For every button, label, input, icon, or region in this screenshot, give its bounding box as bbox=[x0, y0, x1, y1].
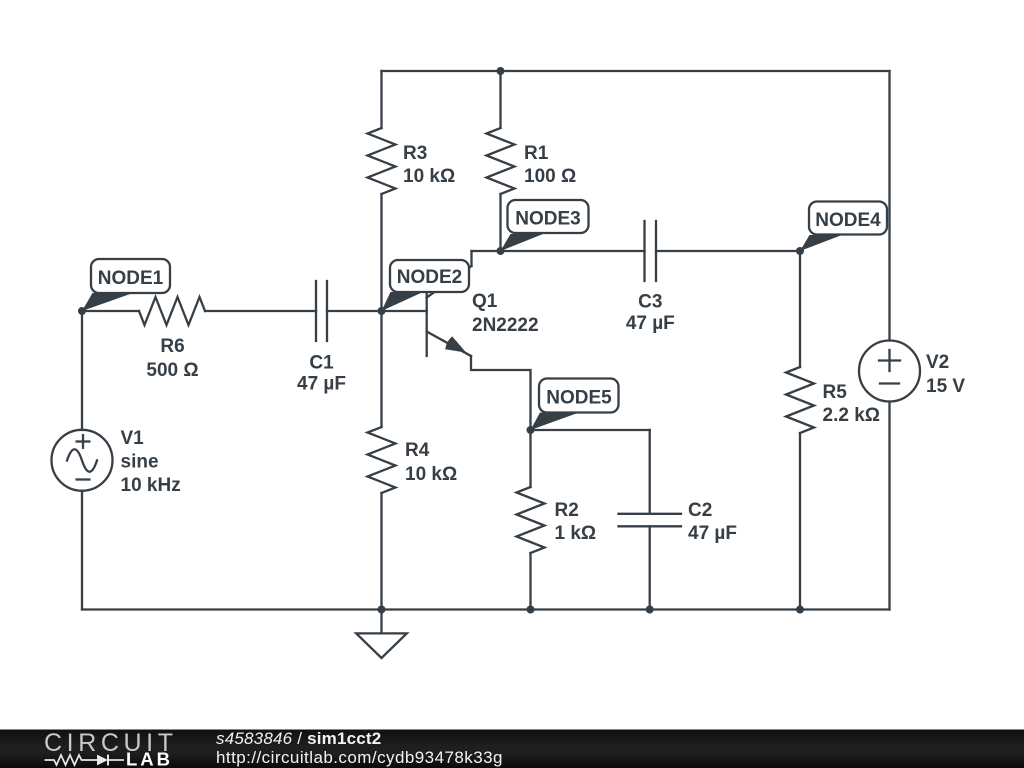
wire bottom rail bbox=[82, 608, 890, 610]
resistor R2 bbox=[517, 430, 545, 610]
label R4 value bbox=[405, 440, 457, 485]
svg-text:47 µF: 47 µF bbox=[688, 523, 737, 544]
voltage source V1 bbox=[52, 430, 113, 491]
label R6 value bbox=[146, 336, 198, 381]
svg-text:R3: R3 bbox=[403, 143, 427, 164]
node junction dots bbox=[78, 67, 804, 614]
svg-text:10 kΩ: 10 kΩ bbox=[405, 464, 457, 485]
wire V1 to bottom rail bbox=[81, 491, 83, 610]
svg-text:10 kHz: 10 kHz bbox=[121, 475, 181, 496]
svg-text:V1: V1 bbox=[121, 428, 145, 449]
wire left rail (NODE1 to V1) bbox=[81, 311, 83, 430]
svg-text:100 Ω: 100 Ω bbox=[524, 166, 576, 187]
wire R3 bottom to NODE2 bbox=[380, 194, 382, 311]
footer title text bbox=[216, 729, 381, 748]
label R5 value bbox=[823, 382, 881, 426]
label C1 value bbox=[297, 353, 346, 395]
wire right rail upper bbox=[888, 71, 890, 341]
label V1 value bbox=[121, 428, 181, 496]
footer url text bbox=[216, 748, 503, 767]
capacitor C3 bbox=[645, 221, 657, 281]
svg-text:NODE1: NODE1 bbox=[98, 268, 164, 289]
svg-text:C3: C3 bbox=[638, 292, 662, 313]
node D NODE4 bbox=[800, 202, 887, 252]
ground bbox=[356, 610, 407, 659]
svg-text:R1: R1 bbox=[524, 143, 549, 164]
wire base (NODE2 to Q1) bbox=[382, 310, 427, 312]
resistor R5 bbox=[786, 251, 814, 610]
wire top rail bbox=[382, 70, 890, 72]
CircuitLab logo bbox=[44, 729, 178, 768]
svg-text:15 V: 15 V bbox=[926, 376, 965, 397]
svg-text:http://circuitlab.com/cydb9347: http://circuitlab.com/cydb93478k33g bbox=[216, 748, 503, 767]
svg-text:500 Ω: 500 Ω bbox=[146, 360, 198, 381]
label V2 value bbox=[926, 352, 965, 397]
svg-text:LAB: LAB bbox=[126, 749, 173, 768]
svg-text:1 kΩ: 1 kΩ bbox=[555, 523, 597, 544]
label C2 value bbox=[688, 500, 737, 544]
node C NODE3 bbox=[501, 200, 589, 251]
svg-text:47 µF: 47 µF bbox=[626, 313, 675, 334]
resistor R4 bbox=[368, 311, 396, 610]
resistor R6 bbox=[82, 297, 316, 325]
svg-text:R5: R5 bbox=[823, 382, 848, 403]
svg-text:V2: V2 bbox=[926, 352, 949, 373]
capacitor C1 bbox=[316, 281, 382, 341]
svg-text:2N2222: 2N2222 bbox=[472, 315, 539, 336]
svg-text:R2: R2 bbox=[555, 500, 579, 521]
svg-text:NODE3: NODE3 bbox=[515, 209, 580, 230]
label C3 value bbox=[626, 292, 675, 335]
node A NODE1 bbox=[82, 259, 170, 311]
wire NODE5 row bbox=[531, 430, 650, 514]
resistor R3 bbox=[368, 71, 396, 194]
svg-text:2.2 kΩ: 2.2 kΩ bbox=[823, 405, 881, 426]
svg-text:NODE2: NODE2 bbox=[397, 267, 462, 288]
label R1 value bbox=[524, 143, 576, 187]
node E NODE5 bbox=[531, 379, 619, 431]
label Q1 value bbox=[472, 291, 539, 336]
svg-text:R4: R4 bbox=[405, 440, 430, 461]
voltage source V2 bbox=[859, 341, 920, 402]
svg-text:C1: C1 bbox=[309, 353, 334, 374]
wire right rail lower bbox=[888, 402, 890, 610]
svg-text:47 µF: 47 µF bbox=[297, 374, 346, 395]
svg-text:Q1: Q1 bbox=[472, 291, 498, 312]
wire collector rail (NODE3 row) bbox=[472, 250, 801, 252]
svg-text:NODE5: NODE5 bbox=[546, 388, 612, 409]
svg-text:NODE4: NODE4 bbox=[815, 210, 881, 231]
svg-text:R6: R6 bbox=[160, 336, 184, 357]
svg-text:10 kΩ: 10 kΩ bbox=[403, 166, 455, 187]
capacitor C2 bbox=[619, 514, 682, 610]
node B NODE2 bbox=[382, 260, 470, 311]
label R3 value bbox=[403, 143, 455, 187]
transistor Q1 bbox=[427, 251, 531, 430]
svg-text:C2: C2 bbox=[688, 500, 712, 521]
resistor R1 bbox=[487, 71, 515, 251]
svg-text:sine: sine bbox=[121, 452, 159, 473]
footer bar bbox=[0, 730, 1024, 768]
svg-text:s4583846 / sim1cct2: s4583846 / sim1cct2 bbox=[216, 729, 381, 748]
label R2 value bbox=[555, 500, 597, 544]
